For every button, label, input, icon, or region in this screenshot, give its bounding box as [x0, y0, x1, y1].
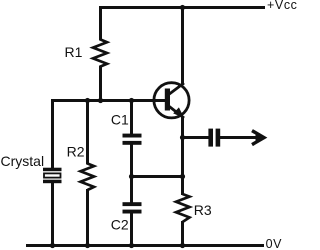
wire divider to emitter	[132, 175, 185, 178]
node emitter-divider junction	[180, 174, 185, 179]
node R3-ground junction	[180, 243, 185, 248]
node R1-base junction	[98, 98, 103, 103]
wire bottom rail 0V	[26, 244, 264, 247]
wire C1 top lead	[130, 99, 133, 135]
node R2-ground junction	[85, 243, 90, 248]
svg-text:0V: 0V	[266, 237, 283, 250]
wire top rail +Vcc	[99, 6, 265, 9]
capacitor output coupling	[208, 129, 220, 147]
resistor R1	[93, 40, 107, 67]
node collector-rail junction	[180, 5, 185, 10]
wire R1 bottom lead	[99, 66, 102, 103]
node output junction	[180, 135, 185, 140]
transistor Q1	[154, 83, 189, 119]
svg-text:+Vcc: +Vcc	[267, 0, 298, 12]
capacitor C2	[123, 202, 142, 213]
wire base rail	[51, 99, 166, 102]
wire R2 bottom lead	[86, 189, 89, 247]
wire R2 top lead	[86, 99, 89, 165]
wire crystal bottom lead	[51, 183, 54, 247]
wire crystal top lead	[51, 99, 54, 169]
node C1-base junction	[129, 98, 134, 103]
wire output lead	[183, 136, 209, 139]
resistor R3	[176, 194, 190, 222]
wire R1 top lead	[99, 6, 102, 41]
node R2-base junction	[85, 98, 90, 103]
wire C2 bottom lead	[130, 213, 133, 247]
resistor R2	[81, 164, 95, 191]
capacitor C1	[123, 134, 142, 145]
node cap-divider junction	[129, 174, 134, 179]
wire collector lead	[181, 6, 184, 85]
node C2-ground junction	[129, 243, 134, 248]
svg-text:Crystal: Crystal	[1, 153, 45, 169]
wire emitter lead	[181, 117, 184, 195]
wire C1-C2 link	[130, 145, 133, 204]
svg-text:C1: C1	[111, 111, 129, 127]
wire R3 bottom lead	[181, 221, 184, 247]
node crystal-ground junction	[50, 243, 55, 248]
wire output arrow	[220, 136, 261, 139]
crystal X1	[43, 168, 62, 184]
svg-text:R2: R2	[67, 144, 85, 160]
svg-text:C2: C2	[111, 217, 129, 233]
svg-text:R1: R1	[65, 44, 83, 60]
svg-text:R3: R3	[194, 202, 212, 218]
